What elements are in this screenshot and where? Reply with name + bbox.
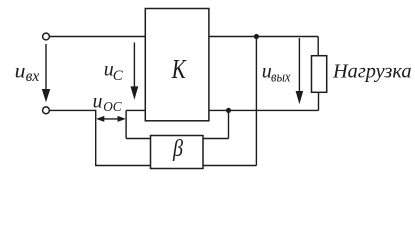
arrow u_vyh (output voltage, down) bbox=[296, 38, 304, 104]
wire: top rail from input terminal to load corner bbox=[50, 36, 319, 38]
wire: lower output wire y=110.4 from node under K to load bottom bbox=[126, 109, 318, 111]
arrow u_C (down, left of K) bbox=[131, 43, 139, 100]
wire: beta box right connection y=138.5 bbox=[203, 138, 229, 140]
wire: long vertical x=256.4 from top rail down to bottom rail bbox=[255, 37, 257, 166]
wire: load top drop x=318.2 bbox=[317, 37, 319, 56]
svg-text:вх: вх bbox=[26, 68, 40, 85]
arrow u_vx (input voltage, down) bbox=[42, 44, 50, 102]
amplifier block K (rectangle) bbox=[145, 9, 209, 121]
load resistor rectangle bbox=[312, 56, 327, 93]
wire: beta box left connection y=138.5 bbox=[126, 138, 151, 140]
svg-text:K: K bbox=[171, 54, 187, 84]
junction dot on top rail bbox=[254, 34, 259, 39]
svg-text:u: u bbox=[15, 60, 26, 82]
svg-text:вых: вых bbox=[271, 69, 291, 86]
wire: load bottom drop x=318.5 bbox=[318, 92, 320, 110]
wire: vertical x=228.5 from output wire down to beta right connection bbox=[228, 110, 230, 138]
wire: bottom feedback rail y=165.5 bbox=[95, 165, 256, 167]
feedback block beta (rectangle) bbox=[151, 136, 204, 169]
wire: bottom input wire from bottom terminal to left vertical bbox=[50, 109, 96, 111]
arrow u_OC (horizontal double-headed) bbox=[96, 116, 126, 122]
svg-text:C: C bbox=[113, 68, 124, 84]
svg-text:ОС: ОС bbox=[103, 99, 122, 114]
input terminal top (open circle) bbox=[43, 33, 50, 40]
wire: left vertical x=95 down to bottom rail bbox=[95, 110, 97, 166]
svg-text:Нагрузка: Нагрузка bbox=[332, 61, 412, 82]
input terminal bottom (open circle) bbox=[43, 107, 50, 114]
svg-text:β: β bbox=[172, 136, 183, 162]
junction dot on lower output wire bbox=[226, 108, 231, 113]
svg-text:u: u bbox=[93, 91, 103, 113]
wire: vertical x=126.1 from lower wire down to beta input bbox=[125, 110, 127, 138]
